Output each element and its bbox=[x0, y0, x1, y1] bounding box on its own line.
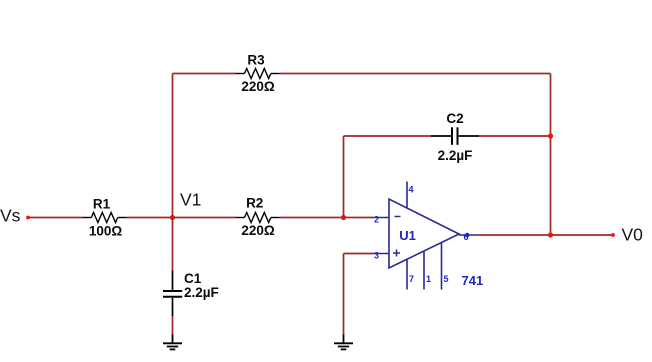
resistor R2 bbox=[236, 213, 280, 223]
wire C2 left bbox=[344, 135, 432, 137]
svg-text:5: 5 bbox=[444, 274, 449, 284]
svg-text:4: 4 bbox=[409, 185, 414, 195]
svg-text:R1: R1 bbox=[93, 197, 111, 212]
op-amp pin 7 stub bbox=[406, 259, 408, 289]
resistor R3 bbox=[236, 69, 280, 79]
svg-text:220Ω: 220Ω bbox=[241, 79, 275, 94]
svg-text:R2: R2 bbox=[246, 196, 263, 211]
op-amp plus sign bbox=[393, 250, 400, 257]
junction dot output feedback bbox=[548, 232, 553, 237]
node A junction dot bbox=[341, 215, 346, 220]
ground right bbox=[334, 335, 353, 350]
svg-text:C1: C1 bbox=[184, 271, 202, 286]
wire C2 branch vertical bbox=[343, 136, 345, 218]
capacitor C1 bbox=[163, 270, 182, 316]
wire C2 right bbox=[479, 135, 551, 137]
svg-text:R3: R3 bbox=[247, 53, 265, 68]
svg-text:V0: V0 bbox=[622, 225, 644, 245]
op-amp pin 1 stub bbox=[423, 251, 425, 290]
wire left vertical V1 branch bbox=[172, 74, 174, 271]
op-amp pin 5 stub bbox=[441, 243, 443, 290]
wire op-amp pin 3 horizontal bbox=[344, 253, 374, 255]
svg-text:2.2µF: 2.2µF bbox=[184, 285, 219, 300]
svg-text:1: 1 bbox=[426, 274, 431, 284]
wire Vs to R1 bbox=[29, 217, 83, 219]
svg-text:7: 7 bbox=[409, 274, 414, 284]
wire output to V0 bbox=[479, 234, 614, 236]
wire V1 to R2 bbox=[173, 217, 236, 219]
resistor R1 bbox=[83, 213, 127, 223]
wire R2 to node A bbox=[280, 217, 344, 219]
svg-text:6: 6 bbox=[464, 232, 469, 242]
wire R1 to node V1 bbox=[127, 217, 173, 219]
svg-text:741: 741 bbox=[462, 273, 484, 288]
junction dot C2 right bbox=[548, 133, 553, 138]
svg-text:100Ω: 100Ω bbox=[89, 224, 123, 239]
op-amp minus sign bbox=[395, 216, 401, 218]
wire right vertical feedback bbox=[550, 74, 552, 236]
wire top feedback R3 right bbox=[280, 73, 551, 75]
wire C1 to ground bbox=[172, 316, 174, 335]
op-amp output dot bbox=[465, 233, 469, 237]
node V0 terminal dot bbox=[611, 233, 615, 237]
op-amp pin 2 stub bbox=[373, 217, 390, 219]
svg-text:220Ω: 220Ω bbox=[241, 223, 275, 238]
capacitor C2 bbox=[431, 127, 479, 145]
wire node A to op-amp pin 2 bbox=[344, 217, 374, 219]
svg-text:Vs: Vs bbox=[0, 206, 21, 226]
node V1 junction dot bbox=[170, 215, 175, 220]
svg-text:2: 2 bbox=[374, 215, 379, 225]
svg-text:2.2µF: 2.2µF bbox=[438, 148, 473, 163]
ground left bbox=[163, 335, 182, 350]
svg-text:C2: C2 bbox=[446, 111, 463, 126]
op-amp pin 3 stub bbox=[373, 253, 390, 255]
op-amp pin 4 stub bbox=[406, 182, 408, 209]
op-amp U1 triangle bbox=[389, 199, 459, 268]
op-amp output stub pin 6 bbox=[459, 234, 479, 236]
wire pin 3 to ground vertical bbox=[343, 254, 345, 335]
svg-text:3: 3 bbox=[374, 251, 379, 261]
node Vs terminal dot bbox=[26, 216, 30, 220]
svg-text:V1: V1 bbox=[180, 190, 201, 210]
svg-text:U1: U1 bbox=[399, 228, 416, 243]
wire top feedback R3 left bbox=[173, 73, 236, 75]
